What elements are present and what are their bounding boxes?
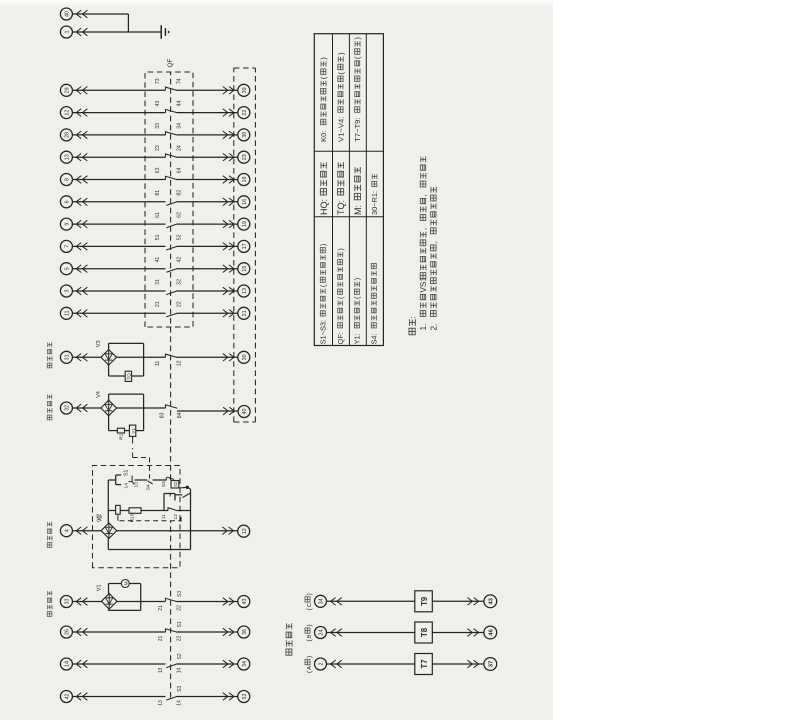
wire	[177, 89, 238, 91]
svg-text:A: A	[307, 666, 313, 670]
svg-text:33: 33	[65, 599, 71, 605]
wire	[327, 632, 415, 634]
svg-text:40: 40	[242, 409, 248, 415]
svg-text:,: ,	[428, 241, 438, 243]
node X2:16 bottom terminal	[238, 196, 250, 208]
svg-text:37: 37	[488, 660, 494, 667]
svg-text:Y1: Y1	[131, 428, 136, 434]
svg-text:S3: S3	[177, 686, 183, 692]
table row line	[348, 34, 350, 346]
svg-text:26: 26	[65, 629, 71, 635]
label 储能回路 (charging circuit)	[47, 612, 52, 617]
node X2:34 terminal	[238, 658, 250, 670]
svg-text:46: 46	[488, 629, 494, 636]
svg-text:TQ: TQ	[127, 373, 132, 380]
svg-text:28: 28	[65, 132, 71, 138]
ground	[160, 25, 162, 38]
svg-text:23: 23	[242, 154, 248, 160]
link stub	[117, 514, 119, 521]
svg-text:84: 84	[177, 412, 183, 418]
svg-text:R1: R1	[119, 433, 125, 439]
svg-text:B: B	[307, 634, 313, 638]
svg-text:52: 52	[242, 694, 248, 700]
node X2:18 bottom terminal	[238, 174, 250, 186]
wire	[177, 601, 238, 603]
microswitch S3 step contact	[165, 477, 167, 480]
table row line	[365, 34, 367, 346]
svg-text:T8: T8	[420, 627, 429, 637]
wire	[72, 89, 165, 91]
wire	[117, 356, 166, 358]
svg-text:13: 13	[242, 288, 248, 294]
svg-text:9: 9	[65, 223, 71, 226]
svg-text:M: M	[123, 581, 128, 585]
svg-text:V1~V4:: V1~V4:	[336, 117, 345, 142]
node X1:13 top terminal	[60, 151, 72, 163]
svg-text:42: 42	[65, 694, 71, 700]
contact 83/84	[166, 405, 178, 408]
table column line	[314, 216, 383, 218]
wire	[177, 268, 238, 270]
svg-text:21: 21	[155, 301, 161, 307]
node X1:7 top terminal	[60, 240, 72, 252]
svg-text:44: 44	[177, 101, 183, 107]
svg-text:41: 41	[155, 257, 161, 263]
QF aux contact 33/34	[166, 132, 178, 135]
svg-text:S4:: S4:	[370, 333, 379, 344]
node X1:14 terminal	[60, 658, 72, 670]
svg-text:15: 15	[242, 266, 248, 272]
svg-text:6: 6	[65, 200, 71, 203]
contact S1 21/22	[166, 629, 178, 632]
breaker QF auxiliary-switch dashed box	[145, 72, 193, 327]
svg-text::: :	[409, 316, 418, 318]
svg-text:TQ:: TQ:	[336, 200, 346, 215]
svg-text:32: 32	[177, 279, 183, 285]
svg-text:): )	[306, 624, 313, 626]
wire	[432, 663, 484, 665]
wire	[72, 112, 165, 114]
wire	[72, 156, 165, 158]
chain3: anti-pump relay K0 coil	[163, 494, 165, 511]
node X1:42 terminal	[60, 691, 72, 703]
wire	[135, 479, 148, 481]
wire chain1	[108, 479, 115, 481]
microswitch S1 contact 13/14	[128, 476, 132, 482]
node terminal 2	[315, 658, 327, 670]
svg-text:14: 14	[176, 700, 182, 706]
svg-text:4: 4	[65, 529, 71, 532]
node terminal 37	[484, 658, 497, 671]
node X2:19 bottom terminal	[238, 218, 250, 230]
svg-text:M:: M:	[353, 205, 363, 215]
svg-text:12: 12	[242, 528, 248, 534]
svg-text:82: 82	[177, 190, 183, 196]
svg-text:12: 12	[177, 360, 183, 366]
collector wire and HQ loop	[190, 489, 192, 550]
svg-text:24: 24	[177, 145, 183, 151]
wire	[117, 407, 166, 409]
svg-text:34: 34	[319, 598, 325, 604]
node terminal 46	[484, 626, 497, 639]
svg-text:S4: S4	[145, 484, 151, 490]
svg-text:12: 12	[65, 110, 71, 116]
svg-text:31: 31	[155, 279, 161, 285]
node X1:8 top terminal	[60, 174, 72, 186]
wire from bridge bottom to terminal	[117, 530, 238, 532]
svg-text:8: 8	[65, 178, 71, 181]
svg-text:14: 14	[176, 668, 182, 674]
rectifier V1	[101, 594, 117, 610]
svg-text:): )	[336, 248, 345, 250]
contact S3 13/14	[166, 696, 177, 700]
resistor R10	[129, 508, 141, 514]
inner dashed mechanism line	[120, 520, 182, 522]
wire	[72, 13, 128, 15]
resistor R1	[117, 428, 124, 433]
svg-text:31: 31	[65, 354, 71, 360]
contact 11/12	[166, 354, 178, 357]
secondary plug connector dashed boundary	[233, 68, 235, 422]
svg-text:3: 3	[65, 290, 71, 293]
svg-text:13: 13	[65, 154, 71, 160]
node X2:40 terminal	[238, 406, 250, 418]
wire	[177, 631, 238, 633]
wire	[177, 223, 238, 225]
svg-text:14: 14	[123, 483, 129, 489]
svg-text:V1: V1	[97, 584, 103, 591]
svg-text:81: 81	[155, 190, 161, 196]
QF aux contact 21/22	[166, 313, 177, 317]
wire	[177, 112, 238, 114]
QF aux contact 51/52	[166, 246, 177, 250]
node X2:21 bottom terminal	[238, 307, 250, 319]
wire	[432, 632, 484, 634]
junction dot	[186, 486, 189, 489]
table row line	[332, 34, 334, 346]
wire	[72, 223, 165, 225]
svg-text:62: 62	[177, 212, 183, 218]
node X2:36 terminal	[238, 626, 250, 638]
wire	[177, 179, 238, 181]
svg-text:): )	[306, 656, 313, 658]
svg-text:32: 32	[65, 405, 71, 411]
label 合闸回路 (closing circuit)	[47, 543, 52, 548]
svg-text:52: 52	[177, 234, 183, 240]
rectifier V3	[101, 350, 117, 366]
top rail from bridge to switch chain	[107, 480, 109, 523]
svg-text:HQ:: HQ:	[319, 199, 329, 215]
svg-text:22: 22	[176, 605, 182, 611]
svg-text:): )	[319, 244, 328, 246]
wire	[72, 601, 101, 603]
main output wire	[108, 522, 110, 524]
contact S2 13/14	[166, 664, 177, 668]
wire	[327, 600, 415, 602]
wire	[177, 356, 238, 358]
QF aux contact 73/74	[166, 87, 178, 90]
wire	[177, 410, 238, 412]
terminal 1	[60, 26, 72, 38]
svg-text:34: 34	[177, 123, 183, 129]
contact on chain2	[168, 508, 177, 511]
svg-text:QF:: QF:	[336, 332, 345, 344]
node X1:9 top terminal	[60, 218, 72, 230]
svg-text:38: 38	[242, 132, 248, 138]
label 分闸回路 (opening circuit)	[47, 363, 52, 368]
wire	[177, 245, 238, 247]
QF aux contact 43/44	[166, 109, 178, 112]
svg-text:29: 29	[65, 87, 71, 93]
svg-text:): )	[306, 593, 313, 595]
svg-text:7: 7	[65, 245, 71, 248]
wire	[177, 156, 238, 158]
microswitch box on chain2	[116, 505, 121, 514]
svg-text:11: 11	[65, 310, 71, 316]
svg-text:30: 30	[242, 354, 248, 360]
wire	[72, 356, 101, 358]
node X2:30 terminal	[238, 351, 250, 363]
QF mechanical linkage dashed line	[170, 72, 172, 480]
node terminal 34	[315, 595, 327, 607]
locking electromagnet loop with R1 and Y1	[108, 394, 110, 400]
svg-text:K0:: K0:	[319, 130, 328, 142]
svg-text:30~R1:: 30~R1:	[370, 191, 379, 215]
svg-text:): )	[319, 57, 328, 60]
wire	[72, 631, 165, 633]
locking microswitch S4 contact	[148, 481, 153, 484]
svg-text:11: 11	[161, 514, 167, 519]
svg-text:V2: V2	[98, 515, 104, 522]
node X1:33 terminal	[60, 596, 72, 608]
QF aux contact 23/24	[166, 154, 178, 157]
svg-text:22: 22	[177, 301, 183, 307]
wire	[177, 134, 238, 136]
notes heading 说明	[409, 328, 415, 335]
node X1:11 top terminal	[60, 307, 72, 319]
svg-text:42: 42	[177, 257, 183, 263]
node X1:26 terminal	[60, 626, 72, 638]
wire	[177, 201, 238, 203]
svg-text:18: 18	[242, 177, 248, 183]
motor M	[121, 580, 129, 588]
wire	[72, 312, 165, 314]
svg-text:39: 39	[242, 87, 248, 93]
closing mechanism dashed box	[93, 466, 181, 568]
wire	[177, 290, 238, 292]
svg-text:(: (	[336, 72, 345, 75]
node X1:4 terminal	[60, 525, 72, 537]
mechanical link Y1 to S4 (dashed)	[132, 436, 134, 443]
node terminal 24	[315, 627, 327, 639]
wire	[72, 407, 101, 409]
svg-text:19: 19	[242, 221, 248, 227]
wire	[72, 663, 165, 665]
rectifier V4	[101, 400, 117, 416]
node terminal 43	[484, 595, 497, 608]
svg-text:Y1:: Y1:	[353, 333, 362, 344]
wire	[72, 134, 165, 136]
node X2:39 bottom terminal	[238, 84, 250, 96]
switch box S2	[171, 481, 179, 489]
svg-text:5: 5	[65, 267, 71, 270]
wire	[72, 268, 165, 270]
legend table frame	[314, 34, 383, 346]
wire	[72, 201, 165, 203]
svg-text:2: 2	[319, 663, 325, 666]
svg-text:T7: T7	[420, 659, 429, 668]
wire	[327, 663, 415, 665]
node X1:31 terminal	[60, 351, 72, 363]
svg-text:11: 11	[155, 361, 161, 366]
QF aux contact 63/64	[166, 176, 178, 179]
node X2:13 bottom terminal	[238, 285, 250, 297]
label 过流脱扣 (overcurrent trip)	[286, 649, 292, 655]
svg-text:V3: V3	[96, 340, 102, 347]
wire to junction	[179, 487, 191, 489]
charging motor M loop	[108, 584, 110, 594]
node X1:5 top terminal	[60, 263, 72, 275]
wire	[72, 290, 165, 292]
svg-text:T7~T9:: T7~T9:	[353, 117, 362, 142]
svg-text:24: 24	[319, 630, 325, 636]
svg-text:2.: 2.	[428, 324, 438, 331]
QF aux contact 81/82	[166, 202, 177, 206]
label 闭锁回路 (locking circuit)	[47, 415, 52, 420]
svg-text:22: 22	[176, 636, 182, 642]
svg-text:V4: V4	[96, 391, 102, 398]
svg-text:T9: T9	[420, 596, 429, 606]
svg-text:1.: 1.	[418, 324, 428, 331]
svg-text:21: 21	[158, 636, 164, 642]
rectifier V2	[101, 523, 117, 539]
svg-text:S2: S2	[173, 481, 178, 487]
QF aux contact 41/42	[166, 269, 177, 273]
node X1:3 top terminal	[60, 285, 72, 297]
svg-text:S1: S1	[177, 621, 183, 627]
svg-text:1: 1	[65, 31, 71, 34]
svg-text:13: 13	[158, 700, 164, 706]
wire	[177, 696, 238, 698]
svg-text:36: 36	[242, 629, 248, 635]
QF aux contact 61/62	[166, 224, 177, 228]
node X2:38 bottom terminal	[238, 129, 250, 141]
terminal 40	[60, 8, 72, 20]
svg-text:S3: S3	[161, 481, 167, 487]
wire	[177, 312, 238, 314]
table column line	[314, 150, 383, 152]
chain2: R10 branch	[108, 510, 115, 512]
node X2:22 terminal	[238, 525, 250, 537]
svg-text:S1: S1	[124, 470, 130, 476]
node X2:17 bottom terminal	[238, 240, 250, 252]
svg-text:22: 22	[242, 110, 248, 116]
svg-text:64: 64	[177, 167, 183, 173]
wire	[117, 601, 166, 603]
svg-text:83: 83	[159, 412, 165, 418]
svg-text:74: 74	[177, 78, 183, 84]
node X2:22 bottom terminal	[238, 107, 250, 119]
svg-text:14: 14	[65, 661, 71, 667]
node X2:52 terminal	[238, 691, 250, 703]
svg-text:16: 16	[242, 199, 248, 205]
trip coil T8	[415, 622, 433, 643]
svg-text:40: 40	[65, 11, 71, 17]
svg-text:43: 43	[242, 599, 248, 605]
S1 actuator bracket	[115, 475, 117, 485]
node X2:23 bottom terminal	[238, 151, 250, 163]
trip coil T7	[415, 654, 433, 675]
svg-text:): )	[353, 37, 362, 40]
svg-text:33: 33	[155, 123, 161, 129]
svg-text:73: 73	[155, 78, 161, 84]
trip coil T9	[415, 591, 433, 612]
svg-text:C: C	[307, 603, 313, 607]
svg-text:13: 13	[133, 482, 139, 488]
svg-text:34: 34	[242, 661, 248, 667]
svg-text:23: 23	[155, 145, 161, 151]
locking electromagnet Y1	[129, 425, 135, 436]
contact S3 21/22	[166, 598, 178, 601]
svg-text:QF: QF	[167, 58, 174, 67]
svg-text:43: 43	[488, 597, 494, 604]
svg-text:61: 61	[155, 212, 161, 218]
svg-text:21: 21	[158, 605, 164, 611]
svg-text:(: (	[319, 76, 328, 79]
svg-text:): )	[353, 278, 362, 280]
svg-text:12: 12	[173, 514, 179, 520]
node X1:6 top terminal	[60, 196, 72, 208]
svg-text:21: 21	[242, 310, 248, 316]
wire	[432, 600, 484, 602]
svg-text:17: 17	[242, 243, 248, 249]
svg-text:S3: S3	[177, 591, 183, 597]
chevron pair on terminal 1	[76, 28, 81, 36]
wire	[72, 179, 165, 181]
opening coil TQ	[125, 371, 131, 381]
node X1:12 top terminal	[60, 107, 72, 119]
svg-text:S2: S2	[177, 653, 183, 659]
svg-text:63: 63	[155, 167, 161, 173]
node X1:32 terminal	[60, 402, 72, 414]
node X2:15 bottom terminal	[238, 263, 250, 275]
wire	[177, 663, 238, 665]
svg-text:S1~S3:: S1~S3:	[319, 320, 328, 344]
svg-text:13: 13	[158, 668, 164, 674]
wire	[72, 245, 165, 247]
wire	[72, 530, 101, 532]
wire	[153, 479, 167, 481]
svg-text:51: 51	[155, 234, 161, 240]
QF aux contact 31/32	[166, 291, 177, 295]
svg-text:): )	[336, 52, 345, 55]
chevron pair on terminal 40	[76, 10, 81, 18]
svg-text:(: (	[353, 56, 362, 59]
svg-text:,: ,	[418, 228, 428, 230]
node X1:29 top terminal	[60, 84, 72, 96]
node X1:28 top terminal	[60, 129, 72, 141]
svg-text:43: 43	[155, 101, 161, 107]
wire	[72, 696, 165, 698]
svg-text:,: ,	[418, 194, 428, 196]
opening release coil TQ loop	[108, 343, 110, 349]
node X2:43 terminal	[238, 596, 250, 608]
